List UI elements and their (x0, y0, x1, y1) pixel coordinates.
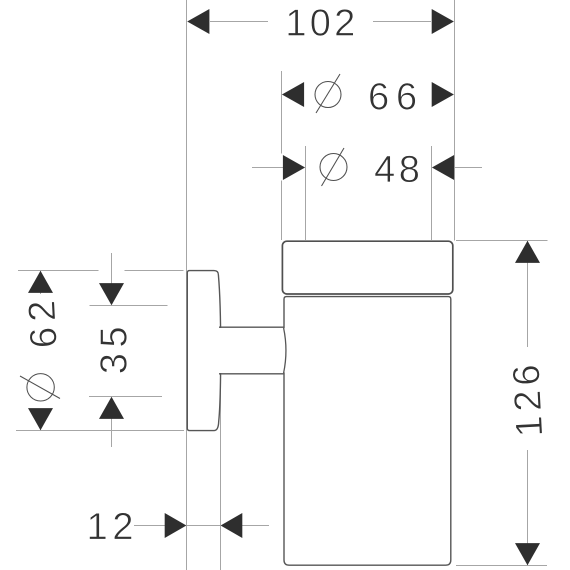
extension line dim 48 left (305, 146, 307, 240)
dim 102 arrow right (432, 9, 454, 34)
cup body (284, 297, 451, 566)
arm joint mask over cup wall (282, 328, 285, 372)
dim 62 line (40, 271, 42, 295)
dim 126 line (527, 241, 529, 348)
dim 12 arrow right (points left) (221, 513, 243, 538)
extension line dim 48 right (431, 146, 433, 240)
extension line dim 12 right (220, 374, 222, 570)
dim 35 reference line bottom (89, 396, 162, 398)
dim 62 value (28, 302, 57, 347)
dim 48 arrow right (432, 155, 454, 180)
dim 48 tail left (252, 167, 283, 169)
extension line dim 66 left (281, 71, 283, 154)
extension line from top-left (shared by dims 102 and 12) (186, 0, 188, 570)
dim 66 arrow right (432, 82, 454, 107)
dim 35 line (111, 253, 113, 284)
dim 126 extension line top (cup top level) (456, 240, 548, 242)
dim 12 value (89, 513, 131, 540)
dim 102 arrow left (187, 9, 209, 34)
dim 102 line (210, 21, 268, 23)
dim 62 diameter symbol (27, 374, 54, 401)
extension line from top-right (shared by dims 102 and 66) (454, 0, 456, 241)
arm end cap (284, 328, 286, 373)
dim 62 extension line bottom (plate bottom level) (16, 430, 184, 432)
dim 48 value (375, 156, 418, 183)
arm bottom edge (219, 373, 284, 375)
dim 35 reference line top (90, 305, 168, 307)
dim 66 diameter symbol (315, 82, 341, 108)
dim 35 arrow top (99, 283, 124, 305)
dim 66 arrow left (282, 82, 304, 107)
wall plate (187, 271, 220, 431)
dim 35 arrow bottom (99, 397, 124, 419)
dim 102 value (288, 9, 353, 36)
dim 126 arrow top (515, 241, 540, 263)
dim 62 arrow top (28, 271, 53, 293)
dim 12 tail right (242, 525, 269, 527)
dim 62 arrow bottom (28, 408, 53, 430)
cup rim (282, 241, 452, 294)
dim 126 value (512, 366, 542, 435)
arm fill (216, 328, 283, 373)
dim 48 tail right (454, 167, 482, 169)
dim 12 line between (187, 525, 220, 527)
dim 48 arrow left (283, 155, 305, 180)
dim 48 diameter symbol (320, 154, 347, 181)
dim 126 arrow bottom (515, 543, 540, 565)
dim 62 extension line top (plate top level) (18, 270, 99, 272)
dim 35 value (100, 328, 127, 373)
dim 126 extension line bottom (cup bottom level) (456, 565, 547, 567)
dim 12 leader left (134, 525, 165, 527)
dim 12 arrow left (points right) (165, 513, 187, 538)
dim 66 value (370, 83, 416, 110)
arm top edge (219, 326, 284, 328)
